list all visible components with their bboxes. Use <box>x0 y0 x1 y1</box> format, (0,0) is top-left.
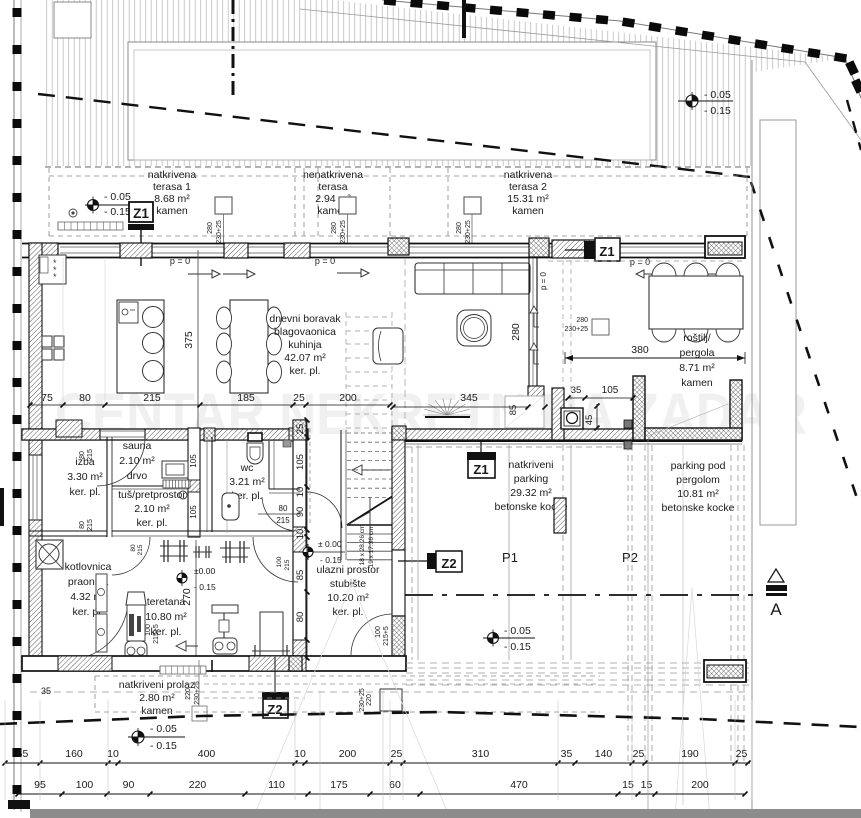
left black bar <box>0 488 4 526</box>
svg-text:- 0.15: - 0.15 <box>104 206 131 218</box>
dimension row B <box>18 793 745 795</box>
svg-text:310: 310 <box>472 748 490 760</box>
door direction arrows <box>188 273 212 275</box>
Z1 marker parking <box>468 454 495 478</box>
svg-text:- 0.05: - 0.05 <box>704 89 731 101</box>
svg-text:- 0.05: - 0.05 <box>104 191 131 203</box>
svg-text:2.10 m²: 2.10 m² <box>119 455 155 467</box>
svg-text:terasa 2: terasa 2 <box>509 181 547 193</box>
bottom wall <box>22 656 406 671</box>
dashed property line <box>38 94 750 177</box>
svg-text:kuhinja: kuhinja <box>288 339 321 351</box>
svg-text:345: 345 <box>460 392 478 404</box>
svg-text:80: 80 <box>295 612 306 623</box>
right window wall living <box>528 258 530 390</box>
svg-text:*: * <box>53 272 57 282</box>
wc toilet <box>248 433 262 441</box>
svg-text:ulazni prostor: ulazni prostor <box>316 564 380 576</box>
svg-text:230+25: 230+25 <box>564 326 588 333</box>
svg-text:140: 140 <box>595 748 613 760</box>
svg-text:215: 215 <box>284 559 291 570</box>
parking bottom dashed lines <box>406 662 750 664</box>
pergola table <box>649 276 743 329</box>
svg-text:85: 85 <box>295 570 306 581</box>
svg-text:blagovaonica: blagovaonica <box>274 326 336 338</box>
parking elevation marker <box>488 630 499 647</box>
svg-text:sauna: sauna <box>123 440 152 452</box>
svg-text:35: 35 <box>561 748 573 760</box>
elevation marker teretana <box>177 570 187 586</box>
svg-text:105: 105 <box>602 385 619 396</box>
shower drain comb <box>163 480 190 488</box>
posts <box>215 197 232 214</box>
svg-text:85: 85 <box>508 405 519 416</box>
svg-text:80: 80 <box>79 451 86 459</box>
svg-text:parking: parking <box>514 473 549 485</box>
svg-text:80: 80 <box>279 504 288 513</box>
svg-text:380: 380 <box>631 344 649 356</box>
stairs arrow <box>352 469 390 471</box>
svg-text:p = 0: p = 0 <box>315 256 335 266</box>
svg-text:90: 90 <box>123 779 135 791</box>
svg-text:betonske kocke: betonske kocke <box>662 502 735 514</box>
svg-text:90: 90 <box>295 507 306 518</box>
svg-text:kotlovnica: kotlovnica <box>65 561 112 573</box>
svg-text:10: 10 <box>295 529 306 540</box>
hallway wall <box>340 430 342 560</box>
chimney niche <box>505 396 544 428</box>
exercise bike <box>212 605 238 613</box>
stairs <box>347 432 392 434</box>
svg-text:kamen: kamen <box>681 377 713 389</box>
svg-text:280: 280 <box>207 222 214 234</box>
sofa <box>415 263 530 294</box>
wc sink <box>222 493 239 520</box>
svg-text:230+25: 230+25 <box>216 220 223 244</box>
armchair <box>373 328 403 364</box>
coffee table <box>457 310 491 346</box>
svg-text:35: 35 <box>41 686 51 696</box>
V marks <box>253 583 352 818</box>
svg-text:p = 0: p = 0 <box>539 271 548 290</box>
svg-text:drvo: drvo <box>127 470 148 482</box>
boundary thin line under squares <box>382 0 861 98</box>
svg-text:200: 200 <box>691 779 709 791</box>
svg-text:3.21 m²: 3.21 m² <box>229 476 265 488</box>
svg-text:25: 25 <box>295 424 306 435</box>
left wall <box>29 243 42 663</box>
stair projection dashed <box>345 312 347 428</box>
Z2 marker stairs <box>427 553 436 569</box>
roof outline white rect <box>128 42 656 160</box>
svg-text:230+25: 230+25 <box>340 220 347 244</box>
svg-text:P2: P2 <box>622 550 638 565</box>
svg-text:3.30 m²: 3.30 m² <box>67 471 103 483</box>
svg-text:230+25: 230+25 <box>465 220 472 244</box>
kitchen counter <box>39 255 66 284</box>
svg-text:470: 470 <box>510 779 528 791</box>
small roof box top-left <box>54 2 91 38</box>
boiler <box>561 408 583 429</box>
column pier parking <box>554 498 566 533</box>
svg-text:8.68 m²: 8.68 m² <box>154 193 190 205</box>
sauna/tus divider <box>112 485 188 487</box>
svg-text:natkriveni: natkriveni <box>509 459 554 471</box>
svg-text:80: 80 <box>130 544 137 552</box>
svg-text:stubište: stubište <box>330 578 366 590</box>
Z2 marker 2 <box>263 699 288 718</box>
svg-text:25: 25 <box>391 748 403 760</box>
svg-text:natkrivena: natkrivena <box>148 169 197 181</box>
svg-text:natkrivena: natkrivena <box>504 169 553 181</box>
svg-text:ker. pl.: ker. pl. <box>151 626 182 638</box>
teretana top wall <box>112 530 300 532</box>
svg-text:- 0.15: - 0.15 <box>704 105 731 117</box>
svg-text:100: 100 <box>76 779 94 791</box>
380 dim <box>565 357 745 359</box>
dim chain right of wc <box>306 420 308 660</box>
svg-text:kamen: kamen <box>141 705 173 717</box>
svg-text:215: 215 <box>87 519 94 531</box>
elevation marker top-right <box>686 92 698 110</box>
bold top mark <box>462 0 466 38</box>
svg-text:- 0.15: - 0.15 <box>150 740 177 752</box>
svg-text:200: 200 <box>339 748 357 760</box>
svg-text:215: 215 <box>87 449 94 461</box>
svg-text:2.80 m²: 2.80 m² <box>139 692 175 704</box>
svg-text:215+5: 215+5 <box>383 626 390 646</box>
svg-text:175: 175 <box>330 779 348 791</box>
mid wall right section <box>392 429 633 440</box>
svg-text:190: 190 <box>681 748 699 760</box>
mid dimension row <box>30 404 390 406</box>
paving strip left <box>58 222 123 230</box>
svg-text:65: 65 <box>17 748 29 760</box>
dashed segment right edge top <box>847 100 861 150</box>
svg-text:Z2: Z2 <box>441 556 456 571</box>
svg-text:- 0.15: - 0.15 <box>504 641 531 653</box>
parking dashed area <box>417 445 419 660</box>
footer gray bar <box>30 809 861 818</box>
barbell rack 1 <box>160 545 188 547</box>
section line A <box>405 594 757 596</box>
svg-text:25: 25 <box>736 748 748 760</box>
wc right wall <box>293 420 306 660</box>
kitchen island <box>117 300 164 393</box>
wc niche partition <box>268 441 270 489</box>
svg-text:60: 60 <box>389 779 401 791</box>
izba door arc <box>97 438 145 486</box>
svg-text:19 x 17.36 cm: 19 x 17.36 cm <box>368 527 375 568</box>
svg-text:Z1: Z1 <box>473 462 488 477</box>
pergola enclosure <box>633 376 645 440</box>
svg-text:230+25: 230+25 <box>194 681 201 705</box>
svg-text:10: 10 <box>294 748 306 760</box>
svg-text:- 0.05: - 0.05 <box>150 723 177 735</box>
svg-text:p = 0: p = 0 <box>170 256 190 266</box>
svg-text:nenatkrivena: nenatkrivena <box>303 169 363 181</box>
boundary squares top <box>384 0 397 6</box>
35 105 dims <box>568 397 633 399</box>
svg-text:dnevni boravak: dnevni boravak <box>269 313 341 325</box>
courtyard diagonal <box>648 404 728 436</box>
svg-text:100: 100 <box>375 626 382 638</box>
svg-text:ker. pl.: ker. pl. <box>137 517 168 529</box>
post square prolaz <box>380 689 402 711</box>
svg-text:80: 80 <box>79 392 91 404</box>
roof hatch area <box>45 0 847 166</box>
svg-text:- 0.15: - 0.15 <box>320 555 342 565</box>
svg-text:10: 10 <box>107 748 119 760</box>
svg-text:10.20 m²: 10.20 m² <box>327 592 369 604</box>
neighbour strip rect <box>760 120 796 525</box>
pergola dashed verticals <box>627 445 629 765</box>
dashdot vertical line <box>232 0 235 97</box>
small col squares <box>624 420 632 428</box>
345 dim <box>393 406 528 408</box>
svg-text:42.07 m²: 42.07 m² <box>284 352 326 364</box>
svg-text:185: 185 <box>237 392 255 404</box>
svg-text:105: 105 <box>189 454 198 468</box>
svg-text:10.81 m²: 10.81 m² <box>677 488 719 500</box>
svg-text:tuš/pretprostor: tuš/pretprostor <box>118 489 186 501</box>
Z1 marker terrace <box>88 197 99 214</box>
mid wall left section <box>22 429 308 440</box>
svg-text:160: 160 <box>65 748 83 760</box>
svg-text:kamen: kamen <box>512 205 544 217</box>
corridor door arc <box>306 492 342 528</box>
375 dim <box>197 250 199 430</box>
svg-text:wc: wc <box>240 462 254 474</box>
prolaz dashed outline <box>95 675 600 677</box>
svg-text:teretana: teretana <box>147 596 186 608</box>
vertical wall stair/entry <box>552 388 564 440</box>
svg-text:8.71 m²: 8.71 m² <box>679 362 715 374</box>
window opening marks <box>530 306 538 313</box>
svg-text:400: 400 <box>198 748 216 760</box>
svg-text:110: 110 <box>268 779 285 791</box>
dimension row A <box>5 762 750 764</box>
svg-text:- 0.15: - 0.15 <box>194 582 216 592</box>
section marker A <box>768 569 784 582</box>
svg-text:35: 35 <box>571 385 582 396</box>
treadmill <box>126 592 146 605</box>
barbell rack 2 <box>220 547 250 549</box>
svg-text:kamen: kamen <box>156 205 188 217</box>
entry elevation marker <box>303 544 313 560</box>
svg-text:parking pod: parking pod <box>671 460 726 472</box>
svg-text:10.80 m²: 10.80 m² <box>145 611 187 623</box>
fireplace radiating <box>425 416 470 418</box>
svg-text:ker. pl.: ker. pl. <box>333 606 364 618</box>
boundary left vertical <box>13 0 15 810</box>
Z1 marker 2 <box>584 241 595 259</box>
svg-text:220: 220 <box>366 694 373 706</box>
svg-text:Z1: Z1 <box>133 206 149 221</box>
svg-text:75: 75 <box>41 392 53 404</box>
room divider walls <box>106 437 108 537</box>
svg-text:2.10 m²: 2.10 m² <box>134 503 170 515</box>
washer dryer <box>96 574 107 612</box>
svg-text:p = 0: p = 0 <box>630 257 650 267</box>
svg-text:280: 280 <box>510 323 522 341</box>
svg-text:280: 280 <box>456 222 463 234</box>
svg-text:15.31 m²: 15.31 m² <box>507 193 549 205</box>
svg-text:29.32 m²: 29.32 m² <box>510 487 552 499</box>
tus-teretana door arc <box>112 537 150 575</box>
floor drain box <box>36 540 63 569</box>
entry wall right <box>392 426 406 440</box>
svg-text:Z1: Z1 <box>599 244 614 259</box>
steep dashed boundary right <box>751 182 861 510</box>
svg-text:natkriveni prolaz: natkriveni prolaz <box>119 679 195 691</box>
svg-text:A: A <box>770 600 782 619</box>
svg-text:375: 375 <box>183 331 195 349</box>
bottom-right pergola pier <box>704 660 746 682</box>
svg-text:280: 280 <box>331 222 338 234</box>
svg-text:15: 15 <box>641 779 653 791</box>
kotlovnica door arc <box>66 604 128 660</box>
svg-text:215: 215 <box>137 544 144 555</box>
terrace dashed outlines <box>45 166 750 168</box>
svg-text:200: 200 <box>339 392 357 404</box>
pergola pier top (bordered) <box>705 236 745 258</box>
svg-text:terasa: terasa <box>318 181 347 193</box>
top wall band <box>22 243 742 245</box>
svg-text:25: 25 <box>633 748 645 760</box>
long verticals <box>682 445 684 805</box>
svg-text:roštilj/: roštilj/ <box>683 332 711 344</box>
svg-text:ker. pl.: ker. pl. <box>290 365 321 377</box>
svg-text:P1: P1 <box>502 550 518 565</box>
svg-text:pergola: pergola <box>679 347 714 359</box>
svg-text:220: 220 <box>189 779 207 791</box>
entry door arc <box>351 614 392 655</box>
svg-text:270: 270 <box>181 588 193 606</box>
extension verticals <box>4 700 6 800</box>
svg-text:45: 45 <box>584 415 595 426</box>
bold dashed line bottom <box>0 712 861 727</box>
svg-text:215: 215 <box>143 392 161 404</box>
svg-text:105: 105 <box>295 454 306 470</box>
wc door arc <box>262 497 297 531</box>
svg-text:25: 25 <box>293 392 305 404</box>
teretana arrow <box>176 645 198 647</box>
post square prolaz 2 <box>192 706 207 721</box>
bench <box>260 612 283 658</box>
svg-text:ker. pl.: ker. pl. <box>70 486 101 498</box>
svg-text:215: 215 <box>276 516 290 525</box>
svg-text:terasa 1: terasa 1 <box>153 181 191 193</box>
dining table <box>230 300 268 393</box>
kitchen boxes <box>42 336 52 347</box>
svg-text:100: 100 <box>276 556 283 567</box>
elevation marker prolaz <box>132 728 144 746</box>
svg-text:± 0.00: ± 0.00 <box>318 539 342 549</box>
paving strip prolaz <box>160 666 206 674</box>
270 dim <box>195 540 197 658</box>
izba/kotlovnica divider <box>29 530 107 532</box>
svg-text:18 x 28.26 cm: 18 x 28.26 cm <box>359 525 366 566</box>
svg-text:±0.00: ±0.00 <box>194 566 215 576</box>
svg-text:280: 280 <box>576 317 588 324</box>
sauna bench <box>162 461 188 478</box>
dumbbells <box>193 551 212 553</box>
izba window <box>29 455 42 520</box>
svg-text:80: 80 <box>79 521 86 529</box>
svg-text:105: 105 <box>189 505 198 519</box>
svg-text:10: 10 <box>295 487 306 498</box>
teretana-ulazni door arc <box>253 537 298 582</box>
280 230+25 small square <box>592 319 609 335</box>
svg-text:- 0.05: - 0.05 <box>504 625 531 637</box>
